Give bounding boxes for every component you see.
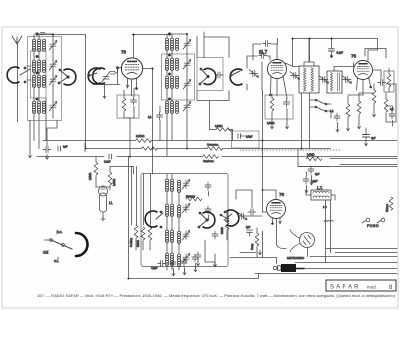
svg-text:157. — RADIO SAFAR — Mod. «518: 157. — RADIO SAFAR — Mod. «518 RT» — Pre… bbox=[37, 294, 395, 298]
resistor R5 bbox=[372, 84, 376, 112]
screen loop V3 bbox=[365, 49, 386, 59]
capacitor C18 inline bbox=[104, 154, 112, 164]
wire AF bus bbox=[37, 157, 397, 165]
switch S2b rotor bbox=[230, 69, 242, 85]
capacitor C15 bbox=[330, 110, 340, 127]
svg-text:0,1MΩ: 0,1MΩ bbox=[307, 154, 315, 157]
svg-text:0,3MΩ: 0,3MΩ bbox=[113, 179, 116, 186]
bottom capacitor C24 bbox=[170, 259, 176, 276]
wire 6L7 grid top bbox=[253, 44, 277, 60]
wire IF2 top bbox=[304, 39, 314, 66]
svg-text:76: 76 bbox=[351, 54, 357, 59]
trimmer capacitor CV9 bbox=[290, 72, 300, 80]
svg-text:0,5MΩ: 0,5MΩ bbox=[136, 134, 144, 138]
node bus dots bbox=[52, 33, 333, 280]
tuning capacitor C11 bbox=[249, 70, 259, 78]
resistor R6 boxed bbox=[384, 68, 394, 92]
svg-text:SAFAR: SAFAR bbox=[330, 285, 361, 291]
trimmer capacitor CV2 bbox=[49, 61, 57, 71]
SAFAR model box bbox=[326, 280, 396, 291]
svg-text:Amplsom.: Amplsom. bbox=[203, 160, 214, 163]
dotted spacer line bbox=[240, 149, 340, 151]
ground C19 bbox=[310, 180, 313, 185]
wire osc section bbox=[247, 56, 270, 90]
svg-text:0,2μF: 0,2μF bbox=[311, 180, 318, 183]
capacitor C30 output bbox=[303, 172, 318, 184]
resistor R20 volume bbox=[386, 197, 393, 212]
wire osc switch feeds bbox=[197, 32, 229, 58]
tube V4 76 output bbox=[267, 190, 286, 224]
resistor R3 bbox=[346, 96, 350, 126]
antenna bbox=[12, 36, 22, 122]
trimmer capacitor CV6 bbox=[183, 60, 191, 70]
wire antenna coupling bbox=[27, 66, 31, 80]
svg-text:0,5: 0,5 bbox=[390, 108, 394, 111]
resistor R12 bbox=[108, 167, 116, 191]
capacitor C32 bottom right bbox=[195, 252, 201, 266]
resistor R7 0.5M bbox=[136, 134, 152, 142]
ground antenna circuit bbox=[46, 155, 49, 160]
switch S2a rotor bbox=[199, 68, 216, 85]
wire lower h bbox=[230, 231, 277, 258]
svg-text:C.C.: C.C. bbox=[57, 230, 62, 234]
wire B+ bus bbox=[86, 148, 331, 150]
switch S5c contact bbox=[220, 211, 229, 222]
svg-text:2μF: 2μF bbox=[315, 173, 320, 176]
transformer T7 bbox=[165, 76, 178, 101]
node T4 top bbox=[36, 98, 38, 100]
capacitor C6 agc bbox=[43, 147, 51, 153]
transformer T6 bbox=[165, 58, 178, 76]
capacitor C29 bbox=[248, 209, 256, 215]
switch S6 rotor bbox=[224, 210, 239, 226]
wire cathode down bbox=[124, 118, 134, 157]
trimmer capacitor CV11 bbox=[342, 76, 352, 84]
box IF transformer 3 bbox=[327, 71, 342, 93]
bottom capacitor C26 bbox=[192, 254, 198, 272]
svg-text:0,1: 0,1 bbox=[330, 110, 334, 113]
resistor R8 bbox=[142, 144, 223, 151]
capacitor C7 cathode bbox=[131, 88, 137, 118]
ground 6L7 cathode bbox=[271, 119, 289, 129]
resistor R2 cathode 6L7 bbox=[270, 94, 274, 119]
padder capacitor C22 bbox=[205, 206, 211, 220]
oscillator coil L1 bbox=[165, 174, 180, 205]
svg-text:78: 78 bbox=[121, 50, 127, 55]
wire plug drop bbox=[277, 200, 331, 264]
transformer T2 bbox=[32, 60, 45, 75]
capacitor C33 in gang bbox=[238, 134, 253, 139]
resistor R6b bbox=[384, 93, 388, 122]
svg-text:Comp: Comp bbox=[251, 243, 254, 250]
cathode network box V2 bbox=[265, 95, 293, 119]
ballast lamp LL bbox=[99, 186, 108, 221]
wire bottom long bbox=[129, 274, 259, 279]
node top junction bbox=[36, 33, 38, 35]
svg-text:O.L.: O.L. bbox=[54, 259, 59, 263]
tube V2 6L7 bbox=[268, 44, 294, 98]
resistor R15 bbox=[148, 227, 152, 250]
bottom capacitor C27 bbox=[158, 261, 166, 267]
speaker coil L5 bbox=[324, 221, 333, 223]
capacitor C34 bbox=[246, 226, 253, 236]
capacitor C19 2uF bbox=[308, 166, 320, 180]
trimmer capacitor CV14 bbox=[182, 231, 190, 241]
wire v3 heater drop bbox=[348, 93, 374, 95]
node T7 top bbox=[168, 73, 170, 75]
trimmer capacitor CV4 bbox=[49, 102, 57, 112]
box gang condenser bbox=[232, 131, 260, 148]
padder capacitor C23 bbox=[212, 231, 218, 239]
box oscillator switch unit bbox=[197, 58, 223, 91]
oscillator coil L4 bbox=[165, 253, 180, 270]
trimmer capacitor CV5 bbox=[183, 40, 191, 50]
ground C30 bbox=[305, 185, 308, 192]
ground mains bbox=[259, 250, 262, 255]
wire bank1 bottoms bbox=[46, 98, 57, 146]
wire around tuner bbox=[236, 190, 266, 216]
node T3 top bbox=[36, 72, 38, 74]
node T6 top bbox=[168, 54, 170, 56]
ground grid bbox=[103, 94, 106, 99]
svg-text:50000Ω: 50000Ω bbox=[186, 196, 195, 199]
node T8 top bbox=[168, 98, 170, 100]
wire left drop bbox=[29, 120, 31, 153]
switch S5b rotor bbox=[198, 212, 215, 228]
trimmer capacitor CV1 bbox=[49, 41, 57, 51]
trimmer capacitor CV7 bbox=[183, 80, 191, 90]
winding IF2 secondary bbox=[311, 68, 313, 92]
svg-text:76: 76 bbox=[279, 192, 285, 197]
resistor R22 osc grid bbox=[210, 125, 233, 132]
switch S1a bbox=[7, 67, 30, 83]
resistor R21 hanging bbox=[329, 39, 344, 58]
svg-text:1μF: 1μF bbox=[63, 146, 68, 149]
speaker METEORINO bbox=[290, 230, 315, 253]
wire audio link box bbox=[298, 149, 330, 167]
capacitor C20 top left bbox=[58, 146, 68, 152]
choke LT box bbox=[311, 190, 331, 200]
bottom capacitor C25 bbox=[181, 258, 187, 275]
wire IF3 top bbox=[334, 63, 354, 71]
vertical feed left bbox=[84, 143, 86, 152]
wire lower link bbox=[110, 167, 397, 175]
vertical feeds into unit bbox=[129, 157, 151, 279]
resistor R18 bbox=[221, 210, 229, 240]
jack FONO right bbox=[377, 218, 385, 223]
wire grid drop bbox=[93, 68, 120, 94]
trimmer capacitor CV15 bbox=[182, 254, 190, 264]
svg-text:I.I.: I.I. bbox=[109, 201, 113, 205]
node T2 top bbox=[36, 55, 38, 57]
svg-text:FONO: FONO bbox=[367, 224, 379, 228]
svg-text:L.T.: L.T. bbox=[317, 186, 323, 190]
transformer T4 bbox=[32, 101, 45, 148]
svg-text:mod.: mod. bbox=[367, 285, 377, 290]
svg-text:Volume: Volume bbox=[386, 203, 389, 212]
svg-text:0,1μF: 0,1μF bbox=[104, 161, 111, 164]
winding IF3 bbox=[331, 73, 340, 92]
oscillator coil L3 bbox=[165, 230, 180, 254]
svg-text:METEORINO: METEORINO bbox=[287, 256, 304, 260]
resistor R11 2.5M bbox=[89, 157, 98, 188]
transformer T8 bbox=[165, 101, 178, 156]
trimmer capacitor CV8 bbox=[183, 102, 191, 112]
wire v4 top bbox=[263, 189, 277, 191]
svg-text:0,5MΩ: 0,5MΩ bbox=[267, 122, 275, 125]
transformer T5 bbox=[165, 34, 178, 58]
ground unit bbox=[205, 240, 217, 267]
wire AVC bus bbox=[43, 140, 397, 142]
svg-text:0,1μF: 0,1μF bbox=[337, 52, 344, 55]
band switch S4 bbox=[44, 230, 88, 260]
wire v3 plate bbox=[372, 70, 381, 79]
capacitor C8 bottom bbox=[148, 106, 163, 141]
node grid junction bbox=[116, 67, 118, 69]
svg-text:C.M.: C.M. bbox=[43, 251, 49, 255]
resistor R14 bbox=[137, 227, 145, 250]
cathode network box V1 bbox=[117, 95, 139, 118]
box IF transformer 2 bbox=[299, 66, 319, 93]
svg-text:Compens.: Compens. bbox=[207, 144, 219, 147]
transformer T3 bbox=[32, 75, 45, 101]
resistor R1 cathode bbox=[122, 90, 126, 118]
grid capacitor C13 bbox=[263, 41, 271, 47]
svg-text:4μF: 4μF bbox=[371, 137, 376, 140]
mains plug bbox=[273, 264, 304, 272]
wire top bus right bbox=[293, 39, 378, 67]
transformer T1 bbox=[32, 34, 45, 60]
trimmer capacitor C4 bbox=[102, 72, 111, 83]
capacitor C31 4uF bbox=[363, 128, 376, 146]
wire cap column top bbox=[37, 34, 53, 118]
wire top bus mid bbox=[132, 34, 170, 36]
wire lamp top bbox=[96, 186, 110, 187]
wire osc drop bbox=[233, 90, 263, 212]
wire plate to IF2 bbox=[278, 39, 310, 149]
wire cap column 2 bbox=[170, 34, 188, 149]
resistor R10 0.1M bbox=[306, 154, 322, 161]
switch S1b rotor bbox=[58, 69, 76, 85]
jack FONO left bbox=[362, 218, 370, 223]
svg-text:0,5MΩ: 0,5MΩ bbox=[215, 125, 223, 128]
capacitor C14 cathode 6L7 bbox=[284, 98, 290, 119]
svg-text:0,1: 0,1 bbox=[148, 116, 152, 119]
capacitor C0 antenna series bbox=[41, 32, 46, 34]
wire LT leads bbox=[306, 190, 335, 200]
wire v4 cathode drop bbox=[277, 219, 287, 249]
trimmer capacitor CV10 bbox=[319, 76, 329, 84]
tube V3 76 detector bbox=[354, 61, 373, 96]
wire top bus left bbox=[37, 35, 86, 149]
wire right rail bbox=[386, 84, 396, 126]
box oscillator unit outer bbox=[141, 174, 228, 267]
resistor R19 compenso bbox=[251, 228, 259, 258]
box RF coil unit outer bbox=[28, 37, 62, 121]
svg-text:1μF: 1μF bbox=[246, 226, 251, 229]
box RF coil unit inner bbox=[31, 51, 47, 98]
oscillator coil L2 bbox=[165, 204, 180, 231]
trimmer capacitor CV12 bbox=[182, 180, 190, 190]
grounds right column bbox=[336, 112, 376, 132]
svg-text:0,5μF: 0,5μF bbox=[246, 136, 253, 139]
capacitor C16 bbox=[378, 80, 386, 86]
svg-text:4,5μF: 4,5μF bbox=[151, 267, 158, 270]
svg-text:30000: 30000 bbox=[221, 227, 224, 234]
svg-text:1 3: 1 3 bbox=[323, 206, 327, 209]
svg-text:Padding: Padding bbox=[130, 238, 133, 247]
ground left bbox=[29, 153, 32, 158]
trimmer capacitor CV3 bbox=[49, 76, 57, 86]
switch S1c rotor bbox=[88, 68, 105, 84]
capacitor C17 bbox=[389, 108, 395, 119]
tube V1 78 mixer bbox=[121, 34, 152, 174]
trimmer capacitor CV13 bbox=[182, 204, 190, 214]
padder capacitor C21 bbox=[205, 182, 211, 196]
resistor R4 bbox=[357, 93, 361, 124]
switch S3 contacts bbox=[310, 99, 331, 118]
capacitor C12 bbox=[259, 53, 267, 59]
svg-text:2,5MΩ: 2,5MΩ bbox=[89, 173, 92, 180]
switch S5a rotor bbox=[145, 211, 163, 228]
padder capacitor C9 bbox=[215, 72, 223, 78]
resistor R13 bbox=[130, 225, 138, 250]
box IF unit 2 bbox=[162, 54, 195, 100]
resistor R16 inside bbox=[186, 196, 202, 201]
winding IF2 primary bbox=[304, 68, 306, 92]
tuning capacitor C28 bbox=[238, 212, 248, 220]
svg-text:6L7: 6L7 bbox=[259, 50, 268, 56]
capacitor C5 grid bbox=[111, 68, 122, 74]
mains bus lines bbox=[240, 249, 397, 274]
svg-text:50000: 50000 bbox=[137, 240, 140, 247]
resistor R9 compenso bbox=[203, 155, 219, 163]
wire under switch box bbox=[197, 91, 229, 130]
node bank2 top bbox=[168, 33, 170, 35]
